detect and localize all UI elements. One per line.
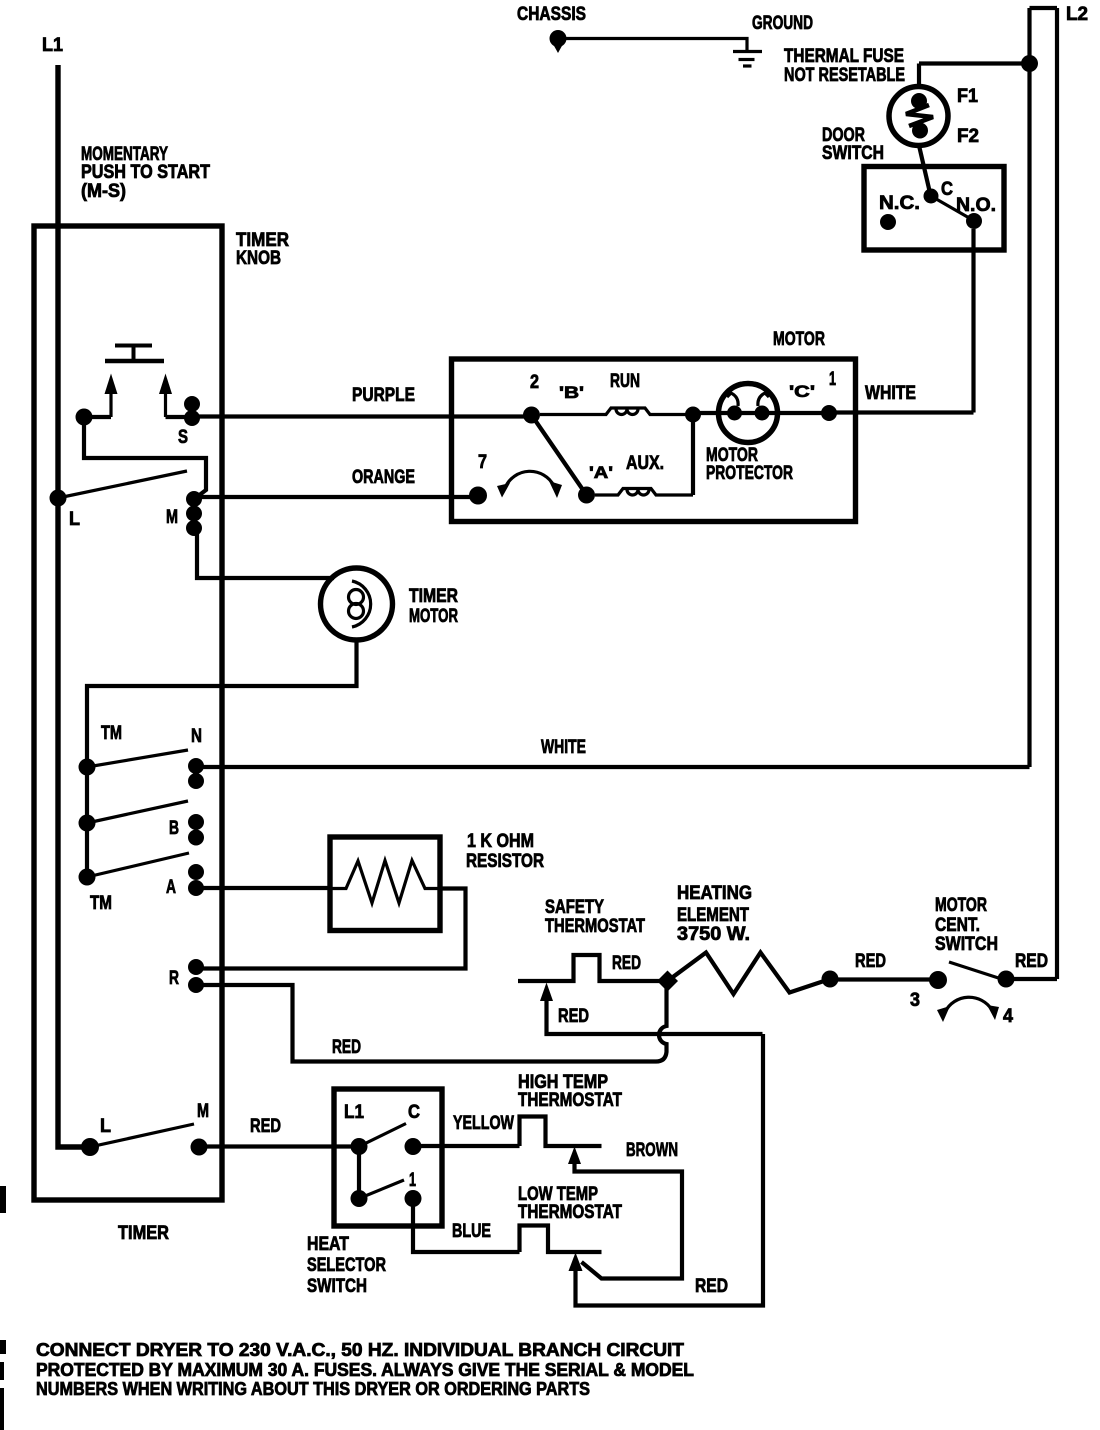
svg-text:'B': 'B' <box>559 383 584 402</box>
wire L1 vertical <box>58 65 90 1147</box>
svg-text:C: C <box>408 1102 420 1123</box>
wire aux to run junction <box>691 415 695 496</box>
svg-text:F2: F2 <box>957 126 979 147</box>
svg-text:2: 2 <box>530 372 539 393</box>
door switch N.C. contact dot <box>880 214 896 230</box>
motor protector label <box>706 445 793 484</box>
door switch C contact dot <box>924 189 939 204</box>
svg-text:RED: RED <box>855 951 886 972</box>
wire L2 drop vertical to white wire <box>1027 8 1031 767</box>
heat selector switch box <box>334 1089 442 1226</box>
svg-text:CHASSIS: CHASSIS <box>517 4 586 25</box>
heating element label <box>677 883 752 945</box>
svg-text:MOTOR: MOTOR <box>935 895 987 916</box>
svg-text:S: S <box>178 427 188 448</box>
blade TM to N <box>87 750 188 767</box>
motor terminal 2 dot <box>523 407 540 424</box>
timer bottom M contact dot <box>191 1139 208 1156</box>
motor terminal 7 dot <box>469 487 487 505</box>
motor box <box>452 359 856 522</box>
door switch box <box>864 167 1004 251</box>
timer motor label <box>409 586 458 627</box>
aux winding <box>595 489 693 496</box>
svg-text:N: N <box>191 726 202 747</box>
svg-text:MOTOR: MOTOR <box>409 606 458 627</box>
ground symbol <box>733 52 762 67</box>
low temp thermostat fixed contact <box>520 1226 602 1253</box>
wire M to timer motor <box>197 528 334 578</box>
svg-text:RED: RED <box>250 1116 281 1137</box>
terminal N dots <box>188 758 204 789</box>
wire door switch N.O. down to motor white <box>971 229 975 413</box>
low temp thermostat arrow <box>569 1034 764 1306</box>
wire R to safety thermostat junction RED <box>196 985 667 1062</box>
wire top bracket to L2 <box>1030 6 1058 10</box>
svg-text:CENT.: CENT. <box>935 915 980 936</box>
svg-text:R: R <box>169 968 179 989</box>
junction dot run/aux <box>685 407 701 423</box>
svg-text:L2: L2 <box>1066 4 1088 25</box>
svg-text:NOT RESETABLE: NOT RESETABLE <box>784 65 905 86</box>
svg-text:SWITCH: SWITCH <box>307 1276 367 1297</box>
svg-text:BLUE: BLUE <box>452 1221 491 1242</box>
svg-text:B: B <box>169 818 179 839</box>
safety thermostat label <box>545 897 645 937</box>
heat selector terminal 1 dot <box>405 1190 422 1207</box>
svg-text:CONNECT DRYER TO 230 V.A.C., 5: CONNECT DRYER TO 230 V.A.C., 50 HZ. INDI… <box>36 1340 684 1360</box>
safety thermostat fixed contact <box>518 955 668 981</box>
terminal M dots <box>186 491 202 536</box>
svg-text:1 K OHM: 1 K OHM <box>467 831 534 852</box>
heat selector blade L1-C <box>359 1124 406 1147</box>
push switch left contact dot <box>76 409 93 426</box>
svg-text:GROUND: GROUND <box>752 13 813 34</box>
svg-text:SWITCH: SWITCH <box>822 143 884 164</box>
heat selector C dot <box>405 1138 422 1155</box>
wire push contact down to M contact <box>84 424 206 498</box>
svg-text:THERMOSTAT: THERMOSTAT <box>545 916 645 937</box>
terminal S dots <box>184 396 200 426</box>
terminal B dots <box>188 814 204 846</box>
svg-text:F1: F1 <box>957 86 978 107</box>
run winding <box>540 408 693 415</box>
svg-text:1: 1 <box>409 1170 416 1191</box>
resistor R 1K label <box>466 831 544 872</box>
svg-text:TIMER: TIMER <box>118 1223 169 1244</box>
high temp thermostat label <box>518 1072 622 1111</box>
svg-text:HEATING: HEATING <box>677 883 752 904</box>
timer L contact dot <box>50 490 67 507</box>
push switch right arrow <box>159 374 172 418</box>
cent switch blade <box>949 962 1000 979</box>
svg-text:PURPLE: PURPLE <box>352 385 415 406</box>
wire C to high temp thermostat YELLOW <box>413 1144 520 1148</box>
svg-text:RED: RED <box>612 953 641 974</box>
svg-text:RESISTOR: RESISTOR <box>466 851 544 872</box>
motor terminal 1 dot <box>821 405 837 421</box>
wire A to resistor <box>196 886 332 890</box>
svg-text:'A': 'A' <box>589 463 613 482</box>
svg-text:TM: TM <box>90 893 112 914</box>
cent switch arc with arrows <box>937 997 999 1022</box>
svg-text:TM: TM <box>101 723 122 744</box>
resistor box <box>330 837 440 931</box>
thermal fuse label <box>784 46 905 86</box>
svg-text:3750 W.: 3750 W. <box>677 924 750 945</box>
svg-text:SAFETY: SAFETY <box>545 897 604 918</box>
chassis terminal dot <box>550 30 567 53</box>
terminal R dots <box>188 959 204 993</box>
svg-text:RED: RED <box>1015 951 1048 972</box>
svg-text:THERMAL FUSE: THERMAL FUSE <box>784 46 904 67</box>
svg-text:L: L <box>69 509 80 530</box>
motor cent switch label <box>935 895 998 955</box>
door switch N.O. contact dot <box>966 213 982 229</box>
high temp thermostat arrow <box>568 1147 682 1279</box>
svg-text:7: 7 <box>478 452 487 473</box>
note text block <box>36 1340 694 1399</box>
thermal fuse F <box>889 87 948 146</box>
motor protector MP <box>719 384 778 443</box>
scan artifact marks <box>0 1186 6 1430</box>
svg-text:RED: RED <box>695 1276 728 1297</box>
svg-text:N.C.: N.C. <box>879 193 920 214</box>
high temp thermostat fixed contact <box>520 1117 602 1147</box>
motor terminal A dot <box>578 487 595 504</box>
svg-text:THERMOSTAT: THERMOSTAT <box>518 1202 622 1223</box>
svg-text:TIMER: TIMER <box>409 586 458 607</box>
heat selector label <box>307 1234 386 1297</box>
svg-text:YELLOW: YELLOW <box>453 1113 514 1134</box>
svg-text:KNOB: KNOB <box>236 248 281 269</box>
svg-text:ELEMENT: ELEMENT <box>677 905 749 926</box>
wire left contact to arrow <box>84 415 111 419</box>
momentary push to start label <box>81 144 210 202</box>
svg-text:NUMBERS WHEN WRITING ABOUT THI: NUMBERS WHEN WRITING ABOUT THIS DRYER OR… <box>36 1379 590 1399</box>
timer motor TM <box>321 568 393 640</box>
wire RED timer M to heat selector <box>199 1144 359 1148</box>
timer bottom blade L to M <box>90 1124 194 1147</box>
push switch left arrow <box>105 374 118 418</box>
door switch DS label <box>822 125 884 164</box>
svg-text:PROTECTED BY MAXIMUM 30 A. FUS: PROTECTED BY MAXIMUM 30 A. FUSES. ALWAYS… <box>36 1360 694 1380</box>
heat selector L1 dot <box>351 1138 368 1155</box>
junction dot at L2 drop <box>1021 55 1038 72</box>
wire WHITE long <box>196 765 1030 769</box>
wire fuse top stub <box>917 64 921 88</box>
low temp thermostat label <box>518 1184 622 1223</box>
svg-text:'C': 'C' <box>789 382 815 401</box>
timer box label <box>236 230 289 269</box>
svg-text:4: 4 <box>1003 1006 1013 1027</box>
wire RED heater to cent switch 3 <box>830 977 938 981</box>
svg-text:RED: RED <box>332 1037 361 1058</box>
timer bottom L contact dot <box>81 1138 99 1156</box>
svg-text:PROTECTOR: PROTECTOR <box>706 463 793 484</box>
svg-text:L: L <box>100 1116 111 1137</box>
svg-text:HEAT: HEAT <box>307 1234 349 1255</box>
timer L-M switch blade <box>58 471 187 498</box>
resistor zigzag <box>330 861 440 904</box>
wire resistor return to R <box>196 889 466 969</box>
blade TM to B <box>87 801 188 823</box>
timer box <box>34 226 222 1200</box>
heater right terminal dot <box>822 971 839 988</box>
wire TM contact column <box>85 767 89 877</box>
wire L1 dot down <box>357 1147 361 1199</box>
svg-text:ORANGE: ORANGE <box>352 467 415 488</box>
heat selector lower left dot <box>351 1190 368 1207</box>
svg-text:(M-S): (M-S) <box>81 181 126 202</box>
svg-text:C: C <box>941 179 953 200</box>
blade TM to A <box>87 853 189 877</box>
wire fuse bottom to door switch C <box>919 146 930 194</box>
svg-text:PUSH TO START: PUSH TO START <box>81 162 210 183</box>
svg-text:THERMOSTAT: THERMOSTAT <box>518 1090 622 1111</box>
svg-text:AUX.: AUX. <box>626 453 664 474</box>
wire right arrow to terminal S <box>166 415 193 419</box>
svg-text:SELECTOR: SELECTOR <box>307 1255 386 1276</box>
svg-text:M: M <box>197 1101 209 1122</box>
svg-text:L1: L1 <box>344 1102 364 1123</box>
svg-text:BROWN: BROWN <box>626 1140 678 1161</box>
push button actuator <box>105 345 164 361</box>
svg-text:3: 3 <box>910 990 920 1011</box>
terminal A dots <box>188 864 204 896</box>
junction diamond heater left <box>657 971 678 992</box>
svg-text:1: 1 <box>829 369 836 390</box>
wire PURPLE <box>192 414 532 418</box>
wire terminal 1 to door switch <box>829 410 974 414</box>
svg-text:WHITE: WHITE <box>865 383 916 404</box>
cent switch terminal 4 dot <box>998 971 1015 988</box>
heat selector blade lower <box>359 1180 404 1199</box>
svg-text:M: M <box>166 507 178 528</box>
TM contact dots <box>79 759 96 886</box>
safety thermostat arrow contact <box>540 983 763 1035</box>
wire chassis to ground <box>558 39 747 51</box>
svg-text:WHITE: WHITE <box>541 737 586 758</box>
wire ORANGE <box>194 495 478 499</box>
svg-text:MOTOR: MOTOR <box>773 329 825 350</box>
svg-text:RUN: RUN <box>610 371 640 392</box>
wire 1 to low temp thermostat BLUE <box>413 1199 520 1253</box>
svg-text:A: A <box>166 877 176 898</box>
svg-text:L1: L1 <box>42 35 63 56</box>
heating element zigzag <box>668 953 831 995</box>
svg-text:RED: RED <box>558 1006 589 1027</box>
door switch blade <box>931 196 971 219</box>
svg-text:SWITCH: SWITCH <box>935 934 998 955</box>
cent switch terminal 3 dot <box>929 971 947 989</box>
wire L2 vertical <box>1055 8 1059 979</box>
wire RED cent switch 4 to L2 <box>1006 977 1057 981</box>
wire run junction to terminal 1 <box>693 411 829 415</box>
motor centrifugal arc with arrows <box>497 471 562 498</box>
motor switch blade 2 to A <box>532 415 587 495</box>
wire timer motor return to TM contacts <box>87 640 357 767</box>
wire fuse top to L2 junction <box>919 61 1030 65</box>
